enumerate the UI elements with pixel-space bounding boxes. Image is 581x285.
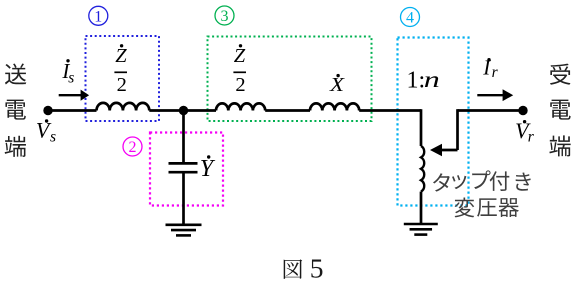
text 変 (transformer label line 2) bbox=[455, 198, 475, 218]
svg-text:2: 2 bbox=[117, 74, 127, 96]
wire: L2 to L3 bbox=[265, 109, 310, 112]
transformer winding (vertical coil, 1:n autotransformer) bbox=[421, 146, 424, 192]
text 端 (receiving-end label) bbox=[549, 135, 570, 156]
svg-text:r: r bbox=[492, 64, 499, 81]
svg-text:3: 3 bbox=[221, 8, 229, 25]
svg-text:X: X bbox=[329, 75, 345, 96]
wire: sending node to L1 bbox=[48, 109, 97, 112]
text 器 (transformer label line 2) bbox=[498, 198, 518, 217]
svg-text:1: 1 bbox=[94, 8, 102, 25]
svg-text:Y: Y bbox=[200, 156, 216, 182]
svg-text:2: 2 bbox=[235, 74, 245, 96]
wire: tap lead (down from receiving wire) bbox=[456, 109, 459, 150]
text 端 (sending-end label) bbox=[5, 136, 26, 157]
value label 1:n (turns ratio) bbox=[407, 67, 440, 94]
text プ (tap transformer label) bbox=[472, 170, 490, 189]
text ッ (tap transformer label) bbox=[452, 175, 466, 189]
label Vr (receiving-end voltage) bbox=[515, 118, 535, 146]
text 付 (tap transformer label) bbox=[490, 171, 510, 191]
text 電 (sending-end label) bbox=[5, 100, 25, 120]
svg-text:n: n bbox=[424, 67, 440, 92]
inductor Z/2 (left half, in box 1) bbox=[97, 103, 150, 111]
dotted region box 1 (series impedance Z/2) bbox=[86, 36, 160, 121]
inductor X (line reactance) bbox=[310, 103, 359, 110]
dotted region box 3 (series Z/2 and X) bbox=[208, 37, 372, 122]
label circled 3 bbox=[215, 6, 234, 25]
value label Z/2 (box 3) bbox=[233, 44, 246, 96]
value label Z/2 (box 1) bbox=[114, 44, 127, 96]
text 送 (sending-end label) bbox=[5, 63, 26, 84]
arrowhead: tap contact arrow bbox=[430, 144, 442, 156]
wire: tap to receiving node bbox=[458, 109, 524, 112]
wire: L3 to transformer primary bbox=[359, 109, 421, 112]
dotted region box 4 (tap transformer) bbox=[398, 38, 469, 206]
node: sending-end terminal Vs bbox=[43, 106, 52, 115]
label Ir (receiving-end current) bbox=[482, 56, 498, 81]
current arrow Is bbox=[59, 90, 89, 101]
ground (transformer) bbox=[404, 224, 438, 235]
current arrow Ir bbox=[477, 89, 513, 101]
wire: transformer primary down-lead bbox=[420, 109, 423, 146]
svg-text:2: 2 bbox=[129, 139, 137, 156]
svg-text:1:: 1: bbox=[407, 68, 426, 94]
text 圧 (transformer label line 2) bbox=[477, 198, 497, 216]
dotted region box 2 (shunt admittance Y) bbox=[150, 133, 223, 206]
caption 図 (figure) bbox=[284, 259, 303, 279]
ground (shunt branch) bbox=[166, 225, 202, 236]
svg-text:4: 4 bbox=[406, 10, 414, 27]
svg-text:Z: Z bbox=[115, 45, 127, 67]
inductor Z/2 (right half, in box 3) bbox=[216, 103, 265, 110]
svg-text:Z: Z bbox=[234, 45, 246, 67]
wire: tap lead horizontal with arrowhead into winding bbox=[438, 149, 458, 152]
node: receiving-end terminal Vr bbox=[518, 106, 527, 115]
capacitor Y (shunt admittance) bbox=[169, 163, 198, 172]
svg-text:5: 5 bbox=[310, 253, 324, 280]
svg-text:r: r bbox=[528, 129, 535, 146]
text き (tap transformer label) bbox=[516, 173, 531, 191]
label Vs (sending-end voltage) bbox=[36, 117, 56, 145]
value label Y (shunt admittance) bbox=[200, 155, 216, 182]
text 受 (receiving-end label) bbox=[550, 64, 571, 85]
label Is (sending-end current) bbox=[61, 59, 74, 86]
label circled 2 bbox=[123, 137, 142, 156]
svg-text:s: s bbox=[50, 129, 56, 146]
text タ (tap transformer label) bbox=[433, 173, 450, 191]
label circled 1 bbox=[89, 6, 108, 25]
node: junction (shunt tap) bbox=[179, 106, 188, 115]
wire: L1 to junction node bbox=[149, 109, 216, 112]
wire: transformer coil to ground bbox=[420, 192, 423, 224]
svg-text:s: s bbox=[68, 69, 74, 86]
wire: junction down to capacitor bbox=[182, 111, 185, 163]
text 電 (receiving-end label) bbox=[550, 100, 570, 120]
label circled 4 bbox=[401, 8, 420, 27]
value label X (line reactance) bbox=[329, 74, 345, 96]
wire: capacitor down to ground bbox=[182, 174, 185, 225]
